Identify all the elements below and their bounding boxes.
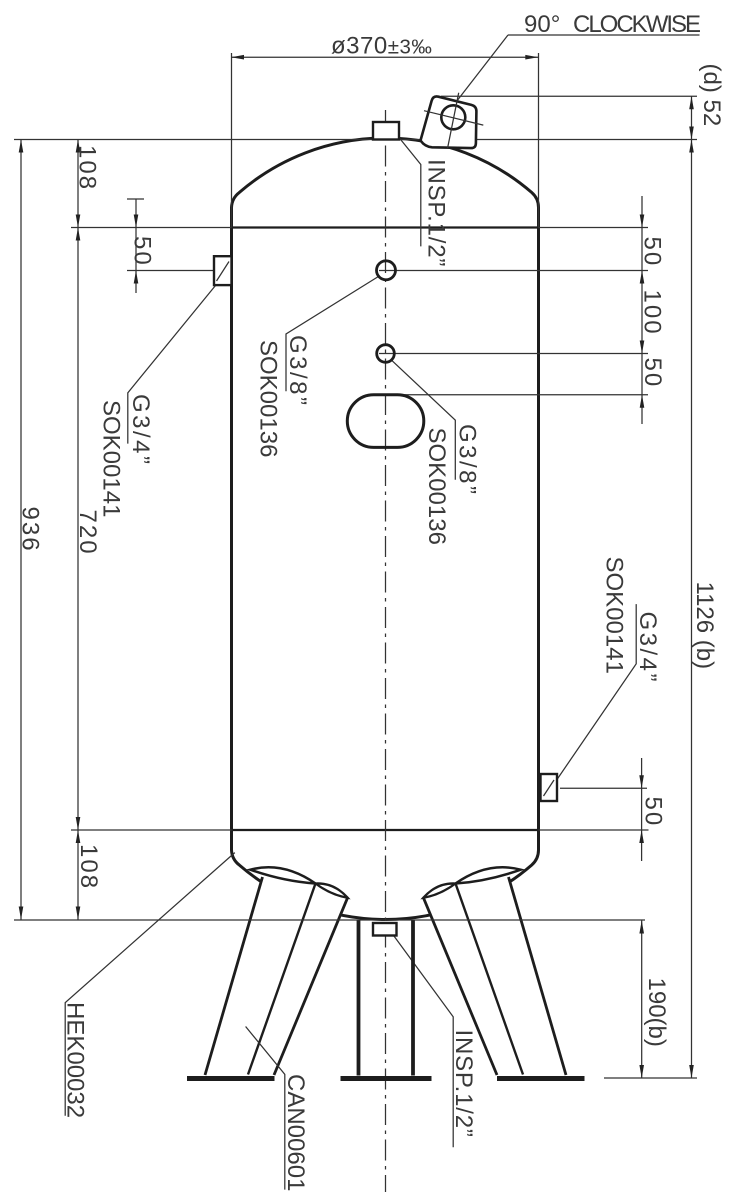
svg-text:INSP.1/2”: INSP.1/2” bbox=[423, 159, 450, 267]
nozzle N1 left wall bbox=[214, 256, 232, 285]
extension line nozzle N2 right bbox=[560, 787, 647, 789]
svg-text:50: 50 bbox=[639, 237, 666, 268]
svg-text:190(b): 190(b) bbox=[643, 978, 670, 1047]
leg left fill bbox=[205, 877, 348, 1075]
svg-text:936: 936 bbox=[17, 507, 44, 553]
extension line circle C1 right bbox=[379, 270, 648, 272]
leader INSP top bbox=[399, 138, 421, 247]
weld seam top bbox=[232, 226, 539, 228]
leg left top lens outer bbox=[250, 867, 315, 883]
centerline vertical bbox=[385, 110, 387, 1192]
dimension line 936 bbox=[20, 140, 22, 920]
dimension line 190(b) bbox=[641, 921, 643, 1079]
dimension line dia370 bbox=[231, 56, 538, 58]
extension line dome top level bbox=[14, 139, 697, 141]
foot plate center bbox=[341, 1076, 432, 1081]
dimension line (d)52 and 1126(b) bbox=[691, 96, 693, 1078]
leg right fill bbox=[423, 877, 566, 1075]
dimension line 108/720/108 bbox=[77, 140, 79, 920]
center leg right edge bbox=[411, 921, 415, 1076]
boss circle bbox=[441, 105, 465, 129]
extension line boss top level bbox=[441, 95, 697, 97]
leader nozzle N1 bbox=[128, 285, 216, 444]
svg-text:G3/8”: G3/8” bbox=[454, 424, 481, 497]
leader 90 clockwise bbox=[456, 35, 508, 103]
nozzle INSP top bbox=[373, 122, 399, 140]
svg-text:50: 50 bbox=[639, 358, 666, 389]
boss crosshair long bbox=[424, 111, 483, 125]
extension line nozzle N1 left bbox=[127, 270, 216, 272]
extension line bottom weld right bbox=[539, 829, 649, 831]
circle C1 bbox=[377, 261, 396, 280]
svg-text:50: 50 bbox=[129, 236, 156, 267]
foot plate right bbox=[497, 1076, 585, 1081]
svg-text:1126 (b): 1126 (b) bbox=[691, 582, 718, 670]
svg-text:(d) 52: (d) 52 bbox=[698, 64, 725, 127]
extension line obround top right bbox=[398, 394, 649, 396]
extension line top weld right bbox=[539, 227, 649, 229]
vessel shell with top and bottom dished heads bbox=[232, 138, 539, 919]
leg left middle line bbox=[248, 884, 316, 1075]
svg-text:G3/8”: G3/8” bbox=[284, 335, 311, 408]
nozzle N2 slash bbox=[544, 780, 555, 796]
extension line circle C2 right bbox=[379, 353, 648, 355]
leg right outer edge bbox=[509, 877, 567, 1075]
extension line bottom weld left bbox=[71, 829, 232, 831]
leg right top lens inner bbox=[423, 883, 455, 897]
nozzle N2 right wall bbox=[541, 774, 558, 801]
svg-text:90°: 90° bbox=[524, 11, 560, 38]
extension line top weld left bbox=[71, 227, 232, 229]
svg-text:108: 108 bbox=[74, 145, 101, 191]
obround opening bbox=[347, 395, 424, 448]
nozzle INSP bottom bbox=[373, 923, 397, 936]
leg left outer edge bbox=[205, 877, 263, 1075]
svg-text:720: 720 bbox=[74, 510, 101, 556]
center leg left edge bbox=[357, 921, 361, 1076]
dimension line 50/100/50 right chain bbox=[641, 196, 643, 424]
svg-text:108: 108 bbox=[75, 844, 102, 890]
leg left inner edge bbox=[274, 898, 348, 1075]
svg-text:SOK00136: SOK00136 bbox=[255, 340, 282, 457]
svg-text:SOK00141: SOK00141 bbox=[98, 400, 125, 517]
leg left top lens inner bbox=[316, 883, 348, 897]
weld seam bottom bbox=[232, 829, 539, 831]
svg-text:ø370±3‰: ø370±3‰ bbox=[331, 33, 432, 60]
leg right middle line bbox=[456, 884, 524, 1075]
svg-text:CAN00601: CAN00601 bbox=[282, 1074, 309, 1191]
extension line dia370 left bbox=[231, 53, 233, 228]
extension line dome bottom level bbox=[14, 919, 645, 921]
svg-text:G3/4”: G3/4” bbox=[634, 612, 661, 685]
leader CAN00601 bbox=[246, 1027, 285, 1190]
leg right inner edge bbox=[423, 898, 497, 1075]
svg-text:SOK00141: SOK00141 bbox=[601, 557, 628, 674]
underline 90 clockwise bbox=[508, 34, 700, 36]
boss crosshair short bbox=[448, 93, 459, 148]
boss 90 clockwise bbox=[421, 96, 477, 148]
svg-text:50: 50 bbox=[640, 797, 667, 828]
foot plate left bbox=[187, 1076, 275, 1081]
leader HEK00032 bbox=[65, 853, 235, 1116]
leg right top lens outer bbox=[456, 867, 521, 883]
leader nozzle N2 bbox=[557, 604, 636, 780]
svg-text:100: 100 bbox=[639, 290, 666, 336]
leader circle C2 bbox=[392, 360, 456, 479]
circle C2 bbox=[377, 345, 395, 363]
dimension line 50 right nozzle bbox=[641, 758, 643, 861]
extension line dia370 right bbox=[538, 53, 540, 228]
svg-text:CLOCKWISE: CLOCKWISE bbox=[573, 11, 700, 38]
svg-text:INSP.1/2”: INSP.1/2” bbox=[450, 1030, 477, 1138]
nozzle N1 slash bbox=[217, 262, 230, 282]
extension line floor level bbox=[604, 1077, 697, 1079]
svg-text:G3/4”: G3/4” bbox=[127, 394, 154, 467]
leader circle C1 bbox=[286, 277, 378, 392]
leader INSP bottom bbox=[393, 935, 453, 1147]
dimension line 50 left bbox=[135, 199, 137, 293]
svg-text:HEK00032: HEK00032 bbox=[62, 1002, 89, 1118]
svg-text:SOK00136: SOK00136 bbox=[423, 428, 450, 545]
